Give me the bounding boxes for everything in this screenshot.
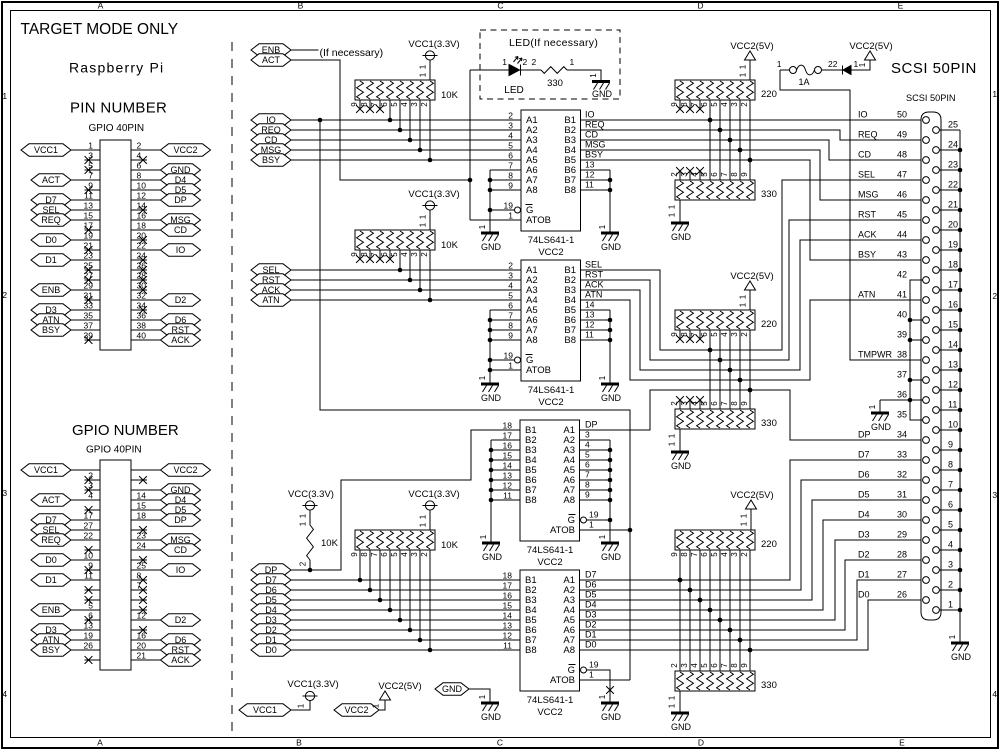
svg-text:38: 38 (897, 350, 907, 360)
svg-text:VCC1(3.3V): VCC1(3.3V) (408, 39, 459, 50)
svg-text:14: 14 (503, 461, 513, 471)
node D0 label (Pi side) (251, 644, 291, 656)
svg-text:9: 9 (88, 561, 93, 571)
pin row right y=310 X (131, 309, 147, 311)
ground (SCSI pin36) (871, 412, 889, 415)
SCSI pin 25 (933, 127, 940, 134)
svg-text:39: 39 (897, 330, 907, 340)
ground (U4 G) (601, 702, 619, 705)
svg-text:5: 5 (585, 450, 590, 460)
svg-text:21: 21 (137, 651, 147, 661)
svg-text:1: 1 (478, 224, 487, 229)
svg-text:7: 7 (508, 161, 513, 171)
wire SEL to U2.A1 (291, 269, 521, 271)
SCSI pin 5 (933, 527, 940, 534)
svg-text:D7: D7 (858, 450, 870, 460)
svg-text:48: 48 (897, 150, 907, 160)
wire D0 from U4.A8 to SCSI pin 26 (580, 600, 923, 650)
svg-text:GND: GND (671, 722, 692, 732)
svg-text:8: 8 (508, 321, 513, 331)
pin row left y=630 D3 (71, 629, 100, 631)
svg-text:1: 1 (739, 72, 748, 77)
svg-text:4: 4 (992, 689, 997, 699)
svg-text:4: 4 (400, 552, 409, 557)
pin row right y=470 VCC2 (131, 469, 161, 471)
svg-text:B8: B8 (525, 645, 537, 656)
svg-text:ACK: ACK (171, 335, 190, 345)
svg-text:3: 3 (730, 332, 739, 337)
svg-text:29: 29 (897, 530, 907, 540)
SCSI pin 40 (ground tie) (923, 317, 930, 324)
svg-text:GND: GND (481, 712, 502, 722)
resistor network RN2 10K pull-ups (SEL RST ACK ATN) (355, 230, 435, 250)
pin row left y=250 X (85, 249, 101, 251)
wire U2 G to ground (490, 359, 515, 361)
node D6 label (Pi side) (251, 584, 291, 596)
svg-text:TMPWR: TMPWR (858, 350, 892, 360)
svg-text:2: 2 (740, 552, 749, 557)
svg-text:D3: D3 (858, 530, 870, 540)
wire D4 from U4.A4 to SCSI pin 30 (580, 520, 923, 610)
pin row left y=650 BSY (71, 649, 100, 651)
SCSI pin 13 (933, 367, 940, 374)
svg-text:A8: A8 (563, 645, 575, 656)
svg-text:4: 4 (690, 663, 699, 668)
RN9 common to ground (679, 691, 681, 712)
wire ATN from U2.B4 to SCSI pin 41 (580, 300, 923, 380)
svg-text:6: 6 (710, 663, 719, 668)
svg-text:29: 29 (84, 281, 94, 291)
svg-text:BSY: BSY (262, 155, 280, 165)
svg-text:12: 12 (585, 170, 595, 180)
SCSI pin 9 (933, 447, 940, 454)
svg-text:2: 2 (420, 252, 429, 257)
pin row right y=250 IO (131, 249, 161, 251)
node ACK label (Pi side) (251, 284, 291, 296)
SCSI pin 23 (933, 167, 940, 174)
svg-text:22: 22 (948, 180, 958, 190)
svg-text:1: 1 (739, 294, 748, 299)
svg-text:74LS641-1: 74LS641-1 (527, 545, 573, 556)
wire R330 to GND (567, 70, 601, 81)
svg-text:6: 6 (88, 611, 93, 621)
pin row right y=560 X (131, 559, 147, 561)
svg-text:CD: CD (585, 130, 598, 140)
svg-text:30: 30 (897, 510, 907, 520)
svg-text:24: 24 (137, 251, 147, 261)
U3 unused B-inputs tied to ground (491, 439, 520, 441)
svg-text:1: 1 (739, 302, 748, 307)
svg-text:4: 4 (400, 102, 409, 107)
svg-text:14: 14 (137, 201, 147, 211)
svg-text:D0: D0 (858, 590, 870, 600)
RN1 pin drops to signals (389, 100, 391, 120)
pin row left y=590 X (85, 589, 101, 591)
ground (RN5) (671, 222, 689, 225)
pin row left y=290 ENB (71, 289, 100, 291)
svg-text:5: 5 (710, 102, 719, 107)
resistor network RN3 10K pull-ups (D7..D0) (355, 530, 435, 550)
svg-text:TARGET MODE ONLY: TARGET MODE ONLY (21, 21, 179, 38)
svg-text:D: D (697, 1, 703, 11)
svg-text:1: 1 (419, 72, 428, 77)
RN4/RN5 termination verticals (709, 100, 711, 180)
svg-text:2: 2 (299, 561, 308, 566)
svg-text:7: 7 (585, 470, 590, 480)
svg-text:8: 8 (680, 552, 689, 557)
svg-text:6: 6 (700, 102, 709, 107)
ground (LED) (592, 80, 610, 83)
svg-text:10K: 10K (441, 90, 459, 101)
svg-text:1: 1 (598, 224, 607, 229)
node VCC1 label (bottom) (239, 704, 291, 716)
svg-text:6: 6 (380, 102, 389, 107)
svg-text:ACK: ACK (171, 655, 190, 665)
svg-text:6: 6 (508, 301, 513, 311)
wire CD to U1.A3 (291, 139, 521, 141)
pin row left y=530 SEL (71, 529, 100, 531)
svg-text:19: 19 (84, 231, 94, 241)
SCSI pin 11 (933, 407, 940, 414)
pin row left y=470 VCC1 (71, 469, 100, 471)
svg-text:ACT: ACT (262, 55, 281, 65)
SCSI pin 15 (933, 327, 940, 334)
svg-text:D5: D5 (585, 590, 597, 600)
svg-text:27: 27 (84, 521, 94, 531)
SCSI pin 19 (933, 247, 940, 254)
wire D6 from U4.A2 to SCSI pin 32 (580, 480, 923, 590)
svg-text:18: 18 (503, 421, 513, 431)
svg-text:RST: RST (858, 210, 877, 220)
node D1 label (Pi side) (251, 634, 291, 646)
connector CN1 GPIO 40PIN (PIN NUMBER) (100, 140, 131, 350)
pin row left y=580 D1 (71, 579, 100, 581)
pin row left y=190 X (85, 189, 101, 191)
wire BSY from U1.B5 to SCSI pin 43 (580, 160, 923, 260)
SCSI pin 33 D7 (923, 457, 930, 464)
svg-text:BSY: BSY (858, 250, 876, 260)
wire D2 from U4.A6 to SCSI pin 28 (580, 560, 923, 630)
svg-text:A8: A8 (526, 185, 538, 196)
SCSI pin 34 DP (923, 437, 930, 444)
svg-text:6: 6 (585, 460, 590, 470)
U2 B5-B8 tied to ground (580, 309, 610, 311)
SCSI pin 2 (933, 587, 940, 594)
svg-text:8: 8 (360, 552, 369, 557)
svg-text:7: 7 (720, 663, 729, 668)
svg-text:36: 36 (897, 390, 907, 400)
svg-text:3: 3 (680, 663, 689, 668)
svg-text:4: 4 (948, 540, 953, 550)
svg-text:4: 4 (585, 440, 590, 450)
pin row right y=160 X (131, 159, 147, 161)
svg-text:1: 1 (589, 520, 594, 530)
svg-text:GND: GND (951, 652, 972, 662)
pin row right y=190 D5 (131, 189, 161, 191)
SCSI pin 3 (933, 567, 940, 574)
svg-text:C: C (497, 1, 503, 11)
SCSI pin 16 (933, 307, 940, 314)
pin row left y=640 ATN (71, 639, 100, 641)
SCSI pin 18 (933, 267, 940, 274)
svg-text:2: 2 (508, 111, 513, 121)
SCSI pin 20 (933, 227, 940, 234)
svg-text:8: 8 (585, 480, 590, 490)
SCSI pin 21 (933, 207, 940, 214)
svg-text:D0: D0 (45, 235, 57, 245)
svg-text:19: 19 (84, 631, 94, 641)
svg-text:B8: B8 (564, 185, 576, 196)
svg-text:30: 30 (137, 281, 147, 291)
wire fuse to diode (822, 69, 843, 71)
U1 B6 B7 B8 tied to ground (580, 169, 610, 171)
svg-text:17: 17 (503, 581, 513, 591)
svg-text:LED: LED (504, 85, 523, 96)
svg-text:1: 1 (777, 59, 782, 69)
svg-text:ATOB: ATOB (526, 365, 551, 376)
svg-text:33: 33 (84, 301, 94, 311)
SCSI pin 30 D4 (923, 517, 930, 524)
svg-text:330: 330 (761, 418, 777, 429)
pin row right y=200 DP (131, 199, 161, 201)
svg-text:IO: IO (176, 245, 186, 255)
svg-text:16: 16 (137, 211, 147, 221)
svg-text:5: 5 (390, 102, 399, 107)
svg-text:11: 11 (948, 400, 957, 410)
svg-text:9: 9 (740, 663, 749, 668)
svg-text:6: 6 (948, 500, 953, 510)
svg-text:1: 1 (739, 64, 748, 69)
RN2 pin drops to signals (399, 250, 401, 270)
svg-text:VCC2: VCC2 (537, 707, 562, 718)
svg-text:2: 2 (740, 332, 749, 337)
svg-text:CD: CD (174, 225, 187, 235)
svg-text:VCC1: VCC1 (253, 705, 277, 715)
U3 unused A-pins and G tied to ground (580, 439, 610, 441)
svg-text:IO: IO (176, 565, 186, 575)
svg-text:45: 45 (897, 210, 907, 220)
svg-text:RST: RST (585, 270, 604, 280)
svg-text:VCC(3.3V): VCC(3.3V) (288, 489, 334, 500)
LED optional circuit dashed box (480, 30, 620, 99)
svg-text:14: 14 (948, 340, 958, 350)
svg-text:12: 12 (948, 380, 958, 390)
node D5 label (Pi side) (251, 594, 291, 606)
svg-text:1: 1 (598, 534, 607, 539)
SCSI pin 41 ATN (923, 297, 930, 304)
svg-text:VCC2: VCC2 (538, 247, 563, 258)
svg-text:GND: GND (481, 242, 502, 252)
svg-text:D5: D5 (858, 490, 870, 500)
pin row left y=240 D0 (71, 239, 100, 241)
svg-text:330: 330 (547, 78, 563, 89)
wire D3 from U4.A5 to SCSI pin 29 (580, 540, 923, 620)
pin row right y=530 X (131, 529, 147, 531)
pin row left y=180 ACT (71, 179, 100, 181)
svg-text:20: 20 (137, 641, 147, 651)
svg-text:1: 1 (508, 211, 513, 221)
RN8/RN9 termination verticals (679, 550, 681, 671)
svg-text:SEL: SEL (858, 170, 875, 180)
SCSI pin 14 (933, 347, 940, 354)
RN6 unused pins no-connect X (679, 330, 681, 338)
SCSI pin 47 SEL (923, 177, 930, 184)
pin row right y=330 RST (131, 329, 161, 331)
pin row right y=600 X (131, 599, 147, 601)
pin row right y=300 D2 (131, 299, 161, 301)
svg-text:12: 12 (137, 191, 147, 201)
svg-text:6: 6 (137, 161, 142, 171)
svg-text:5: 5 (700, 663, 709, 668)
svg-text:1: 1 (478, 694, 487, 699)
wire DP from Pi to U3.B1 (291, 430, 520, 570)
svg-text:7: 7 (88, 171, 93, 181)
pin row right y=320 D6 (131, 319, 161, 321)
pin row right y=640 D6 (131, 639, 161, 641)
svg-text:IO: IO (585, 110, 595, 120)
svg-text:2: 2 (508, 261, 513, 271)
svg-text:ATN: ATN (585, 290, 602, 300)
svg-text:41: 41 (897, 290, 907, 300)
pin row right y=550 CD (131, 549, 161, 551)
buffer IC U1 74LS641-1 (IO REQ CD MSG BSY) (521, 110, 581, 231)
svg-text:1: 1 (478, 375, 487, 380)
svg-text:35: 35 (897, 410, 907, 420)
svg-text:19: 19 (589, 510, 599, 520)
RN5 common to ground (679, 200, 681, 222)
svg-text:D4: D4 (858, 510, 870, 520)
svg-text:REQ: REQ (585, 120, 605, 130)
svg-text:18: 18 (948, 260, 958, 270)
pin row left y=570 X (85, 569, 101, 571)
diode D1 (842, 66, 844, 75)
svg-text:ATOB: ATOB (550, 675, 575, 686)
svg-text:2: 2 (420, 102, 429, 107)
svg-text:2: 2 (137, 141, 142, 151)
svg-text:5: 5 (948, 520, 953, 530)
svg-text:D6: D6 (858, 470, 870, 480)
svg-text:BSY: BSY (42, 645, 60, 655)
buffer IC U4 74LS641-1 (D7..D0) (520, 570, 580, 691)
svg-text:10K: 10K (441, 240, 459, 251)
wire MSG to U1.A4 (291, 149, 521, 151)
wire D2 to U4.B6 (291, 629, 520, 631)
svg-text:D1: D1 (45, 575, 57, 585)
svg-text:21: 21 (84, 241, 94, 251)
pin row right y=580 X (131, 579, 147, 581)
svg-text:4: 4 (400, 252, 409, 257)
wire D7 to U4.B1 (291, 579, 520, 581)
svg-text:26: 26 (137, 261, 147, 271)
SCSI pin 49 REQ (923, 137, 930, 144)
svg-text:CD: CD (858, 150, 871, 160)
svg-text:10: 10 (948, 420, 958, 430)
svg-text:7: 7 (137, 581, 142, 591)
svg-text:23: 23 (948, 160, 958, 170)
svg-text:34: 34 (137, 301, 147, 311)
svg-text:15: 15 (84, 211, 94, 221)
svg-text:DP: DP (174, 195, 187, 205)
svg-text:5: 5 (508, 291, 513, 301)
svg-text:D2: D2 (585, 620, 597, 630)
svg-text:9: 9 (670, 552, 679, 557)
svg-text:14: 14 (137, 491, 147, 501)
svg-text:25: 25 (948, 120, 958, 130)
svg-text:5: 5 (390, 252, 399, 257)
node ATN label (Pi side) (251, 294, 291, 306)
svg-text:D1: D1 (858, 570, 870, 580)
svg-text:1: 1 (297, 703, 306, 708)
svg-text:GND: GND (871, 422, 892, 432)
wire D7 from U4.A1 to SCSI pin 33 (580, 460, 923, 580)
svg-text:BSY: BSY (42, 325, 60, 335)
svg-text:2: 2 (420, 552, 429, 557)
svg-text:5: 5 (390, 552, 399, 557)
pin row right y=260 X (131, 259, 147, 261)
svg-text:35: 35 (84, 311, 94, 321)
wire CD from U1.B3 to SCSI pin 48 (580, 140, 923, 160)
svg-text:19: 19 (504, 351, 514, 361)
svg-text:VCC2(5V): VCC2(5V) (730, 490, 773, 501)
svg-text:2: 2 (532, 57, 537, 67)
svg-text:D2: D2 (175, 295, 187, 305)
svg-text:7: 7 (948, 480, 953, 490)
svg-text:GND: GND (601, 242, 622, 252)
svg-text:13: 13 (84, 201, 94, 211)
svg-text:1: 1 (668, 703, 677, 708)
U2 unused A-inputs tied to ground (490, 309, 521, 311)
svg-text:17: 17 (84, 511, 94, 521)
wire REQ to U1.A2 (291, 129, 521, 131)
pin row left y=550 X (85, 549, 101, 551)
svg-text:7: 7 (720, 172, 729, 177)
svg-text:11: 11 (585, 180, 594, 190)
svg-text:GND: GND (601, 552, 622, 562)
wire D5 to U4.B3 (291, 599, 520, 601)
svg-text:ACT: ACT (42, 175, 61, 185)
pin row right y=280 X (131, 279, 147, 281)
svg-text:220: 220 (761, 89, 777, 100)
svg-text:1: 1 (668, 441, 677, 446)
svg-text:ATN: ATN (858, 290, 875, 300)
svg-text:8: 8 (137, 571, 142, 581)
svg-text:28: 28 (897, 550, 907, 560)
wire LED cathode to R330 (521, 69, 541, 71)
node MSG label (Pi side) (251, 144, 291, 156)
svg-text:16: 16 (503, 591, 513, 601)
svg-text:3: 3 (410, 102, 419, 107)
svg-text:5: 5 (710, 552, 719, 557)
svg-text:4: 4 (720, 332, 729, 337)
svg-text:15: 15 (503, 601, 513, 611)
svg-text:DP: DP (585, 420, 598, 430)
svg-text:18: 18 (137, 511, 147, 521)
wire MSG from U1.B4 to SCSI pin 46 (580, 150, 923, 200)
node DP label (Pi side) (251, 564, 291, 576)
svg-text:VCC2: VCC2 (173, 465, 197, 475)
svg-text:1: 1 (88, 141, 93, 151)
resistor network RN7 330 terminators (SEL RST ACK ATN DP) (675, 409, 755, 429)
SCSI ground-tie pins 42 40 39 37 36 35 bus (910, 280, 923, 420)
svg-text:ACK: ACK (858, 230, 877, 240)
svg-text:50: 50 (897, 110, 907, 120)
RN2 unused pins with no-connect X (359, 250, 361, 258)
svg-text:D0: D0 (585, 640, 597, 650)
node ENB label (251, 44, 291, 56)
wire diode anode to VCC2 (851, 60, 870, 70)
svg-text:1: 1 (299, 513, 308, 518)
svg-text:8: 8 (730, 172, 739, 177)
